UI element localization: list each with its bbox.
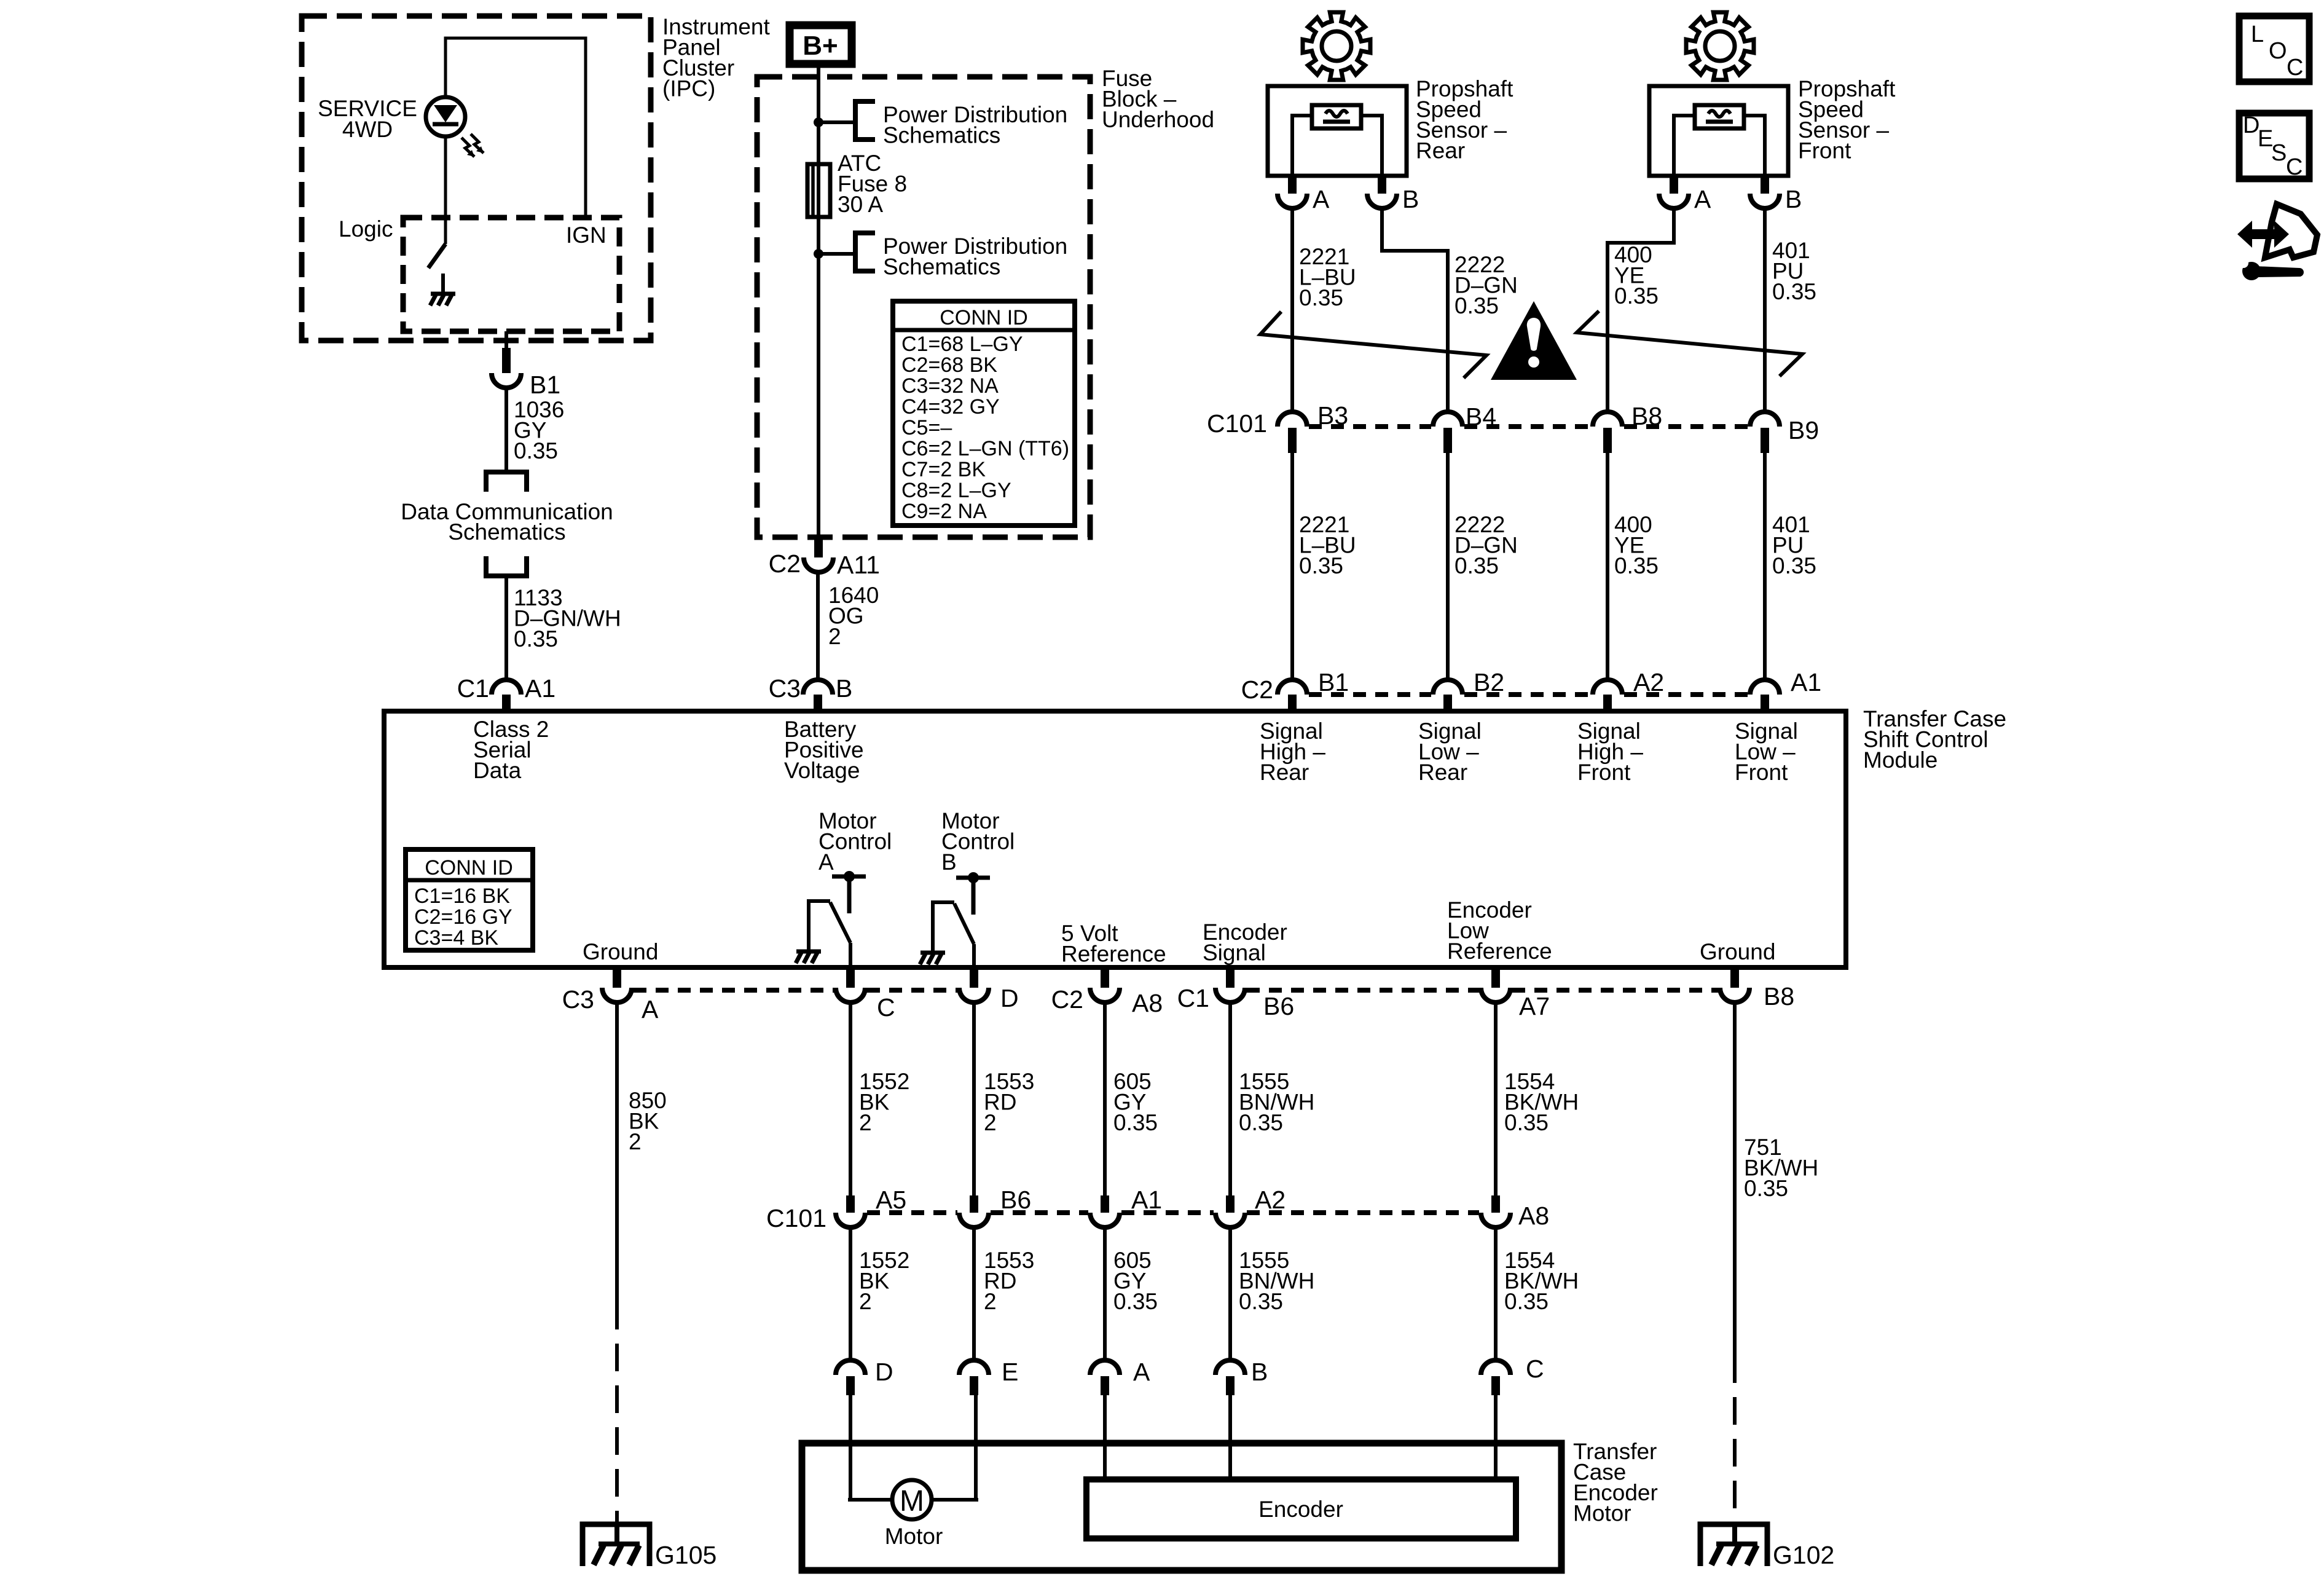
svg-text:Rear: Rear	[1260, 760, 1309, 785]
connector B rear	[1367, 194, 1397, 208]
module bottom pin B6	[1226, 967, 1235, 988]
wire	[1361, 116, 1382, 176]
svg-text:A2: A2	[1633, 668, 1664, 696]
warning triangle	[1491, 301, 1577, 380]
svg-text:A: A	[1694, 185, 1711, 213]
svg-text:Logic: Logic	[339, 216, 393, 242]
connector D	[959, 988, 989, 1002]
svg-text:A: A	[1133, 1358, 1150, 1386]
svg-text:IGN: IGN	[566, 222, 607, 248]
connector C101 lower 1554 stub	[1491, 1195, 1500, 1213]
connector B front	[1750, 194, 1780, 208]
svg-text:C2=16 GY: C2=16 GY	[414, 905, 512, 929]
connector C101 lower 605	[1090, 1213, 1120, 1227]
motor control driver A	[832, 875, 866, 879]
wire 1555 upper	[1228, 1003, 1232, 1195]
svg-text:C1=16 BK: C1=16 BK	[414, 884, 510, 908]
svg-text:D: D	[1000, 984, 1019, 1012]
wire 401 signal low front	[1763, 208, 1767, 413]
svg-text:30 A: 30 A	[838, 192, 883, 217]
svg-text:C1=68 L–GY: C1=68 L–GY	[901, 333, 1023, 356]
svg-text:0.35: 0.35	[1299, 553, 1343, 578]
wire 1552 upper	[849, 1003, 852, 1195]
ground driver A	[796, 950, 821, 954]
svg-text:G105: G105	[655, 1541, 716, 1569]
svg-text:B6: B6	[1263, 992, 1294, 1020]
connector C101 lower 1552 stub	[846, 1195, 855, 1213]
svg-text:E: E	[1002, 1358, 1018, 1386]
svg-text:B: B	[1251, 1358, 1268, 1386]
wire lamp to switch	[444, 136, 447, 244]
connector C101 lower 1554	[1481, 1213, 1510, 1227]
connector A	[602, 988, 632, 1002]
transfer case shift control module box	[384, 711, 1846, 967]
module bottom pin A7	[1491, 967, 1500, 988]
wire 751 solid	[1733, 1003, 1737, 1355]
wire 1640	[816, 572, 820, 680]
svg-text:D: D	[875, 1358, 893, 1386]
connector C101 lower 1553	[959, 1213, 989, 1227]
svg-text:A7: A7	[1519, 992, 1550, 1020]
svg-text:B8: B8	[1764, 982, 1794, 1010]
svg-text:Ground: Ground	[1700, 939, 1775, 964]
wire 1553 upper	[972, 1003, 976, 1195]
svg-text:C2: C2	[769, 549, 801, 578]
module bottom dashed rows	[634, 988, 834, 993]
lamp rays	[461, 138, 474, 157]
wire to encoder	[1494, 1395, 1498, 1479]
wire to off-page ref	[819, 120, 855, 124]
svg-text:C101: C101	[766, 1204, 826, 1232]
svg-text:Underhood: Underhood	[1102, 107, 1214, 132]
svg-text:A1: A1	[525, 674, 555, 703]
svg-text:G102: G102	[1773, 1541, 1834, 1569]
svg-text:M: M	[900, 1485, 924, 1518]
wire	[1292, 116, 1312, 176]
wire to module	[1763, 453, 1767, 680]
wire 400 signal high front	[1608, 208, 1674, 413]
svg-text:A5: A5	[876, 1186, 906, 1214]
connector C101 lower 1553 stub	[970, 1195, 978, 1213]
svg-text:C: C	[877, 993, 895, 1022]
connector module A2	[1593, 680, 1622, 695]
wire 1133	[504, 578, 508, 680]
svg-text:A: A	[819, 849, 834, 875]
connector B1 stub	[502, 348, 511, 373]
wire	[1674, 116, 1695, 176]
arrow-wrench icon	[2265, 204, 2317, 258]
wire to encoder	[1228, 1395, 1232, 1479]
svg-text:B1: B1	[1318, 668, 1349, 696]
pin B rear	[1378, 176, 1386, 194]
svg-text:2: 2	[828, 624, 841, 649]
wire 1554 upper	[1494, 1003, 1498, 1195]
connector row C101 upper dashed	[1309, 424, 1431, 429]
svg-text:C2: C2	[1051, 985, 1083, 1014]
svg-text:CONN ID: CONN ID	[940, 306, 1028, 329]
junction	[814, 249, 823, 259]
off-page ref top bracket	[486, 472, 527, 492]
svg-text:A1: A1	[1131, 1186, 1162, 1214]
connector C101 B9	[1750, 412, 1780, 427]
C101 lower dashed row	[867, 1210, 957, 1215]
wire 1552 lower	[849, 1227, 852, 1360]
svg-text:Motor: Motor	[1573, 1501, 1631, 1526]
connector C	[836, 988, 865, 1002]
wire IPC loop	[446, 38, 586, 219]
svg-text:A8: A8	[1518, 1202, 1549, 1230]
svg-text:C4=32 GY: C4=32 GY	[901, 395, 1000, 419]
connector C101 lower 1555	[1215, 1213, 1245, 1227]
connector C101 B3	[1278, 412, 1307, 427]
ground logic	[441, 274, 445, 294]
battery feed B+	[790, 25, 852, 64]
svg-text:4WD: 4WD	[342, 117, 393, 142]
svg-text:C7=2 BK: C7=2 BK	[901, 458, 986, 481]
off-page ref bottom bracket	[486, 556, 527, 576]
wire 751 dashed	[1733, 1355, 1737, 1523]
wire to module	[1290, 453, 1294, 680]
ground G105	[583, 1524, 650, 1566]
off-page ref power distribution upper	[855, 101, 875, 140]
svg-text:Rear: Rear	[1416, 138, 1465, 163]
svg-text:(IPC): (IPC)	[662, 76, 715, 101]
module bottom pin B8	[1730, 967, 1739, 988]
svg-text:2: 2	[984, 1110, 997, 1135]
svg-text:C: C	[2286, 154, 2302, 180]
svg-text:Motor: Motor	[885, 1524, 943, 1549]
connector A rear	[1278, 194, 1307, 208]
propshaft speed sensor rear box	[1268, 86, 1407, 176]
LOC icon	[2239, 16, 2309, 82]
connector B8	[1720, 988, 1749, 1002]
wire to module	[1606, 453, 1609, 680]
svg-text:L: L	[2251, 22, 2264, 47]
connector C101 lower 1552	[836, 1213, 865, 1227]
svg-text:0.35: 0.35	[1113, 1110, 1158, 1135]
svg-text:CONN ID: CONN ID	[425, 856, 513, 880]
connector D encoder	[836, 1360, 865, 1375]
svg-text:0.35: 0.35	[1504, 1289, 1549, 1314]
svg-text:A8: A8	[1132, 989, 1163, 1017]
connector module B1	[1278, 680, 1307, 695]
module bottom pin A8	[1101, 967, 1109, 988]
switch blade	[428, 244, 446, 268]
indicator lamp SERVICE 4WD	[426, 97, 465, 136]
wrench	[2242, 262, 2261, 280]
svg-text:C: C	[2287, 55, 2303, 81]
svg-text:0.35: 0.35	[514, 626, 558, 652]
svg-text:B6: B6	[1000, 1186, 1031, 1214]
svg-text:0.35: 0.35	[1614, 283, 1659, 309]
svg-text:C3: C3	[769, 674, 801, 703]
svg-text:C101: C101	[1207, 409, 1267, 438]
svg-text:2: 2	[984, 1289, 997, 1314]
wire to off-page ref 2	[819, 252, 855, 256]
logic box	[403, 218, 619, 331]
svg-text:B2: B2	[1474, 668, 1504, 696]
transfer case encoder motor box	[802, 1443, 1561, 1570]
CONN ID table (fuse block)	[893, 301, 1075, 526]
ground G102	[1700, 1524, 1767, 1566]
encoder box	[1086, 1479, 1516, 1538]
connector module A1	[1750, 680, 1780, 695]
svg-text:0.35: 0.35	[1299, 285, 1343, 310]
instrument panel cluster box	[302, 16, 651, 341]
module bottom pin D	[970, 967, 978, 988]
sensor element rear	[1312, 105, 1361, 128]
svg-text:Schematics: Schematics	[883, 254, 1000, 280]
svg-text:0.35: 0.35	[1772, 279, 1816, 304]
fuse block underhood box	[757, 77, 1090, 537]
svg-text:A: A	[642, 995, 659, 1023]
svg-text:C6=2 L–GN (TT6): C6=2 L–GN (TT6)	[901, 437, 1069, 460]
wire 605 lower	[1103, 1227, 1107, 1360]
svg-text:A: A	[1313, 185, 1330, 213]
svg-text:C3=32 NA: C3=32 NA	[901, 374, 999, 398]
svg-text:B: B	[1785, 185, 1802, 213]
svg-text:Rear: Rear	[1418, 760, 1467, 785]
wire 850 dashed	[615, 1302, 619, 1522]
svg-text:B3: B3	[1317, 401, 1348, 430]
connector A7	[1481, 988, 1510, 1002]
svg-text:0.35: 0.35	[514, 438, 558, 463]
svg-text:C2=68 BK: C2=68 BK	[901, 353, 997, 377]
svg-text:0.35: 0.35	[1239, 1110, 1283, 1135]
svg-text:C: C	[1526, 1355, 1544, 1383]
svg-text:2: 2	[859, 1289, 872, 1314]
wire 1036	[504, 388, 508, 472]
svg-text:B4: B4	[1466, 403, 1496, 431]
wire 850 solid	[615, 1003, 619, 1302]
svg-text:C8=2 L–GY: C8=2 L–GY	[901, 479, 1011, 502]
svg-text:C5=–: C5=–	[901, 416, 952, 439]
off-page ref power distribution lower	[855, 233, 875, 271]
svg-text:Data: Data	[473, 758, 522, 783]
svg-text:C3=4 BK: C3=4 BK	[414, 926, 498, 950]
svg-text:0.35: 0.35	[1772, 553, 1816, 578]
gear icon front	[1686, 12, 1754, 80]
svg-text:A2: A2	[1255, 1186, 1286, 1214]
wire 1555 lower	[1228, 1227, 1232, 1360]
pin B front	[1761, 176, 1769, 194]
svg-text:Ground: Ground	[583, 939, 658, 964]
svg-text:0.35: 0.35	[1113, 1289, 1158, 1314]
wire B+ to C2	[817, 64, 820, 537]
connector module B2	[1433, 680, 1462, 695]
svg-text:C9=2 NA: C9=2 NA	[901, 500, 987, 523]
svg-text:C3: C3	[562, 985, 594, 1014]
CONN ID table (module)	[406, 849, 533, 950]
svg-text:Encoder: Encoder	[1258, 1497, 1343, 1522]
propshaft speed sensor front box	[1649, 86, 1788, 176]
svg-text:Reference: Reference	[1061, 942, 1166, 967]
module top signal connector dashed row	[1309, 692, 1431, 697]
svg-text:B1: B1	[530, 371, 560, 399]
twisted pair marker right	[1577, 311, 1802, 376]
junction	[814, 117, 823, 127]
svg-text:Schematics: Schematics	[448, 519, 565, 545]
svg-text:C2: C2	[1241, 675, 1273, 704]
wire 605 upper	[1103, 1003, 1107, 1195]
ground driver B	[921, 951, 945, 955]
connector E encoder	[959, 1360, 989, 1375]
pin A front	[1670, 176, 1678, 194]
module bottom pin C	[846, 967, 855, 988]
svg-text:Module: Module	[1863, 747, 1937, 773]
sensor element front	[1695, 105, 1744, 128]
motor control driver B	[956, 876, 990, 880]
svg-text:B: B	[941, 849, 957, 875]
DESC icon	[2239, 113, 2309, 179]
svg-text:2: 2	[859, 1110, 872, 1135]
motor M	[849, 1395, 852, 1500]
connector C101 B4	[1433, 412, 1462, 427]
svg-text:B8: B8	[1631, 402, 1662, 430]
svg-text:B: B	[836, 674, 852, 703]
connector C2/A11 stub	[814, 537, 823, 557]
connector A8	[1090, 988, 1120, 1002]
svg-text:0.35: 0.35	[1454, 553, 1499, 578]
svg-text:A1: A1	[1791, 668, 1821, 696]
wire 2221 signal high rear	[1290, 208, 1294, 413]
svg-text:C1: C1	[1177, 984, 1209, 1012]
connector C3/B	[803, 680, 833, 695]
svg-text:B: B	[1402, 185, 1419, 213]
svg-text:Front: Front	[1577, 760, 1631, 785]
svg-text:Schematics: Schematics	[883, 123, 1000, 148]
svg-text:0.35: 0.35	[1239, 1289, 1283, 1314]
connector C101 lower 1555 stub	[1226, 1195, 1235, 1213]
connector A encoder	[1090, 1360, 1120, 1375]
module bottom pin A	[613, 967, 621, 988]
svg-text:Voltage: Voltage	[784, 758, 860, 783]
gear icon rear	[1303, 12, 1370, 80]
pin A rear	[1288, 176, 1297, 194]
connector B6	[1215, 988, 1245, 1002]
connector C encoder	[1481, 1360, 1510, 1375]
svg-text:A11: A11	[837, 551, 880, 579]
wire 1554 lower	[1494, 1227, 1498, 1360]
svg-text:2: 2	[629, 1129, 642, 1154]
connector C1/A1	[492, 680, 521, 695]
svg-text:S: S	[2271, 140, 2287, 166]
twisted pair marker left	[1260, 312, 1486, 378]
svg-text:B+: B+	[803, 31, 838, 61]
svg-text:Reference: Reference	[1447, 939, 1552, 964]
svg-text:0.35: 0.35	[1454, 293, 1499, 318]
svg-text:Front: Front	[1798, 138, 1851, 163]
connector C101 B8	[1593, 412, 1622, 427]
wire 2222 signal low rear	[1382, 208, 1448, 413]
svg-text:0.35: 0.35	[1614, 553, 1659, 578]
connector C101 lower 605 stub	[1101, 1195, 1109, 1213]
svg-text:B9: B9	[1788, 416, 1819, 444]
wire to module	[1446, 453, 1450, 680]
wire	[1744, 116, 1765, 176]
wire to encoder	[1103, 1395, 1107, 1479]
connector A front	[1659, 194, 1689, 208]
svg-text:C1: C1	[457, 674, 489, 703]
svg-text:0.35: 0.35	[1504, 1110, 1549, 1135]
svg-text:Signal: Signal	[1203, 940, 1266, 966]
svg-text:Front: Front	[1735, 760, 1788, 785]
svg-text:O: O	[2269, 38, 2287, 64]
svg-text:0.35: 0.35	[1744, 1176, 1788, 1201]
connector B encoder	[1215, 1360, 1245, 1375]
connector C2/A11	[804, 557, 833, 572]
wire 1553 lower	[972, 1227, 976, 1360]
wire to B1	[504, 331, 508, 350]
connector B1	[492, 373, 521, 388]
fuse ATC Fuse 8 30A	[807, 164, 830, 217]
